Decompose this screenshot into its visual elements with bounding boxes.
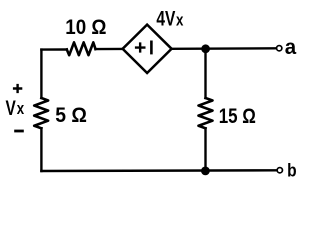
plus polarity mark for Vx bbox=[13, 84, 22, 93]
wire right vertical lower bbox=[204, 128, 206, 171]
terminal a open circle bbox=[277, 46, 282, 51]
wire top-left horizontal segment bbox=[41, 48, 66, 50]
wire diamond to terminal a bbox=[172, 47, 276, 50]
wire left vertical lower bbox=[40, 128, 42, 171]
wire left vertical upper bbox=[40, 50, 42, 98]
svg-text:4V: 4V bbox=[156, 7, 176, 31]
svg-text:x: x bbox=[17, 99, 25, 118]
node junction dot bottom bbox=[201, 167, 210, 176]
plus sign inside diamond bbox=[135, 42, 146, 52]
svg-text:10 Ω: 10 Ω bbox=[65, 14, 106, 39]
wire right vertical upper bbox=[204, 49, 206, 98]
terminal b open circle bbox=[277, 168, 282, 173]
svg-text:a: a bbox=[285, 36, 297, 59]
minus polarity mark for Vx bbox=[14, 130, 24, 133]
svg-text:V: V bbox=[6, 95, 17, 120]
vertical bar inside diamond bbox=[150, 42, 153, 53]
resistor 15 ohm zigzag bbox=[199, 98, 213, 128]
wire resistor to diamond bbox=[96, 48, 123, 51]
dependent source diamond outline bbox=[123, 25, 172, 73]
svg-text:x: x bbox=[176, 11, 184, 30]
svg-text:5 Ω: 5 Ω bbox=[55, 102, 87, 127]
svg-text:b: b bbox=[287, 160, 297, 181]
wire bottom horizontal bbox=[41, 169, 276, 172]
resistor 5 ohm zigzag bbox=[34, 98, 48, 128]
svg-text:15 Ω: 15 Ω bbox=[219, 103, 256, 128]
node junction dot top bbox=[201, 44, 210, 53]
resistor 10 ohm zigzag bbox=[67, 42, 96, 55]
